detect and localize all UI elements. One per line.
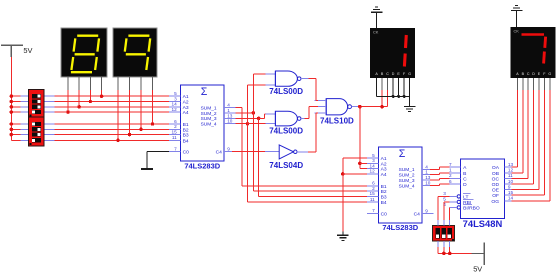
svg-text:11: 11 bbox=[370, 197, 375, 202]
inverter U3 74LS04D bbox=[269, 145, 308, 170]
power 5V V1 symbol top-left bbox=[1, 45, 33, 57]
svg-text:7: 7 bbox=[449, 162, 452, 167]
seven-segment display U7 (hex, shows 9) bbox=[113, 28, 157, 77]
svg-text:13: 13 bbox=[508, 162, 514, 167]
svg-text:A2: A2 bbox=[183, 100, 189, 106]
svg-text:5V: 5V bbox=[473, 264, 482, 273]
svg-text:74LS283D: 74LS283D bbox=[382, 223, 418, 232]
wire U4 SUM_3 to U5 C bbox=[430, 178, 450, 180]
svg-text:14: 14 bbox=[508, 196, 514, 201]
adder U1 74LS283D (4-bit full adder) bbox=[169, 85, 235, 170]
svg-text:A3: A3 bbox=[381, 167, 387, 173]
svg-text:SUM_4: SUM_4 bbox=[399, 183, 415, 189]
ground at U1 C0 bbox=[141, 152, 169, 169]
svg-text:SUM_2: SUM_2 bbox=[201, 111, 217, 117]
svg-text:Σ: Σ bbox=[399, 148, 406, 160]
svg-text:2: 2 bbox=[174, 124, 177, 129]
svg-text:9: 9 bbox=[508, 184, 511, 189]
svg-text:B4: B4 bbox=[381, 200, 387, 206]
svg-text:LT: LT bbox=[463, 194, 468, 200]
wire display U7 pin 3 to row bbox=[139, 77, 143, 131]
svg-text:A1: A1 bbox=[381, 156, 387, 162]
svg-text:SUM_2: SUM_2 bbox=[399, 173, 415, 179]
NAND gate U8 74LS10D (3-input) bbox=[315, 99, 359, 126]
wire U1 SUM_1 to U4 B1 (via vertical) bbox=[235, 108, 378, 186]
svg-text:A2: A2 bbox=[381, 161, 387, 167]
svg-text:11: 11 bbox=[172, 135, 177, 140]
decoder U5 74LS48N (BCD to 7-segment) bbox=[443, 159, 513, 229]
wire display U6 pin 1 to row bbox=[66, 77, 70, 114]
svg-text:B: B bbox=[463, 171, 466, 177]
wire S3 pin 2 to U5 ~RBI bbox=[444, 202, 450, 225]
wire U2B output to U8 input 2 bbox=[305, 107, 319, 119]
svg-text:4: 4 bbox=[227, 103, 230, 108]
svg-text:14: 14 bbox=[171, 102, 177, 107]
svg-text:74LS48N: 74LS48N bbox=[463, 218, 503, 229]
wire 5V rail to switch S2 pin 2 bbox=[10, 128, 29, 132]
power 5V V2 symbol bottom-right bbox=[473, 242, 484, 273]
svg-text:OC: OC bbox=[492, 176, 500, 182]
wire S3 pin 3 to U5 ~BI/RBO bbox=[449, 207, 451, 225]
svg-text:9: 9 bbox=[425, 208, 428, 213]
wire U4 SUM_2 to U5 B bbox=[430, 173, 450, 175]
seven-segment display U6 (hex, shows 8) bbox=[61, 28, 107, 77]
svg-text:A3: A3 bbox=[183, 105, 189, 111]
svg-text:SUM_1: SUM_1 bbox=[201, 105, 217, 111]
wire switch row 2 to U1 A2 bbox=[44, 101, 180, 103]
wire 5V rail to switch S1 pin 4 bbox=[10, 110, 29, 114]
svg-text:Σ: Σ bbox=[201, 86, 208, 98]
svg-text:D: D bbox=[392, 72, 395, 76]
wire display U7 pin 1 to row bbox=[116, 77, 120, 142]
wire U5 OF to display U10 pin F bbox=[511, 78, 544, 195]
svg-text:15: 15 bbox=[508, 190, 514, 195]
svg-text:1: 1 bbox=[425, 170, 428, 175]
NAND gate U2A 74LS00D bbox=[269, 71, 308, 96]
svg-text:5: 5 bbox=[372, 153, 375, 158]
wire U8 output to display U9 segments B,C and U4 A2,A3 (carry net) bbox=[358, 90, 388, 168]
wire display U6 pin 4 to row bbox=[100, 77, 104, 98]
wire switch row 8 to U1 B4 bbox=[44, 139, 180, 141]
svg-text:3: 3 bbox=[372, 158, 375, 163]
svg-text:OA: OA bbox=[492, 165, 500, 171]
svg-text:1: 1 bbox=[449, 168, 452, 173]
svg-text:5V: 5V bbox=[23, 46, 32, 55]
ground below display U9 bbox=[404, 96, 416, 111]
svg-text:74LS283D: 74LS283D bbox=[184, 161, 220, 170]
svg-text:C: C bbox=[463, 176, 467, 182]
svg-text:OD: OD bbox=[492, 182, 500, 188]
svg-text:SUM_3: SUM_3 bbox=[399, 178, 415, 184]
svg-text:B3: B3 bbox=[381, 194, 387, 200]
svg-text:6: 6 bbox=[372, 181, 375, 186]
svg-text:B4: B4 bbox=[183, 138, 189, 144]
svg-text:3: 3 bbox=[174, 96, 177, 101]
svg-text:1: 1 bbox=[227, 108, 230, 113]
seven-segment display U9 (common, shows 1) bbox=[370, 28, 415, 78]
wire switch row 5 to U1 B1 bbox=[44, 123, 180, 125]
wire U2A output to U8 input 1 bbox=[308, 79, 318, 101]
wire 5V rail to switch S1 pin 3 bbox=[10, 105, 29, 109]
wire 5V rail to switch bank inputs (vertical) bbox=[10, 57, 12, 141]
svg-text:10: 10 bbox=[508, 179, 514, 184]
svg-text:5: 5 bbox=[443, 197, 446, 202]
svg-text:9: 9 bbox=[227, 147, 230, 152]
svg-text:SUM_1: SUM_1 bbox=[399, 167, 415, 173]
svg-text:B2: B2 bbox=[381, 189, 387, 195]
svg-text:C4: C4 bbox=[216, 150, 223, 156]
wire U4 SUM_4 to U5 D bbox=[430, 184, 450, 186]
svg-text:2: 2 bbox=[372, 186, 375, 191]
svg-text:3: 3 bbox=[443, 191, 446, 196]
svg-text:6: 6 bbox=[449, 179, 452, 184]
svg-text:74LS10D: 74LS10D bbox=[320, 116, 354, 125]
wire display U7 pin 2 to row bbox=[128, 77, 132, 136]
wire U3 output to U8 input 3 bbox=[308, 113, 318, 152]
svg-text:6: 6 bbox=[174, 119, 177, 124]
svg-text:OG: OG bbox=[491, 199, 499, 205]
wire display U9 unused pins to ground bus bbox=[377, 78, 410, 98]
svg-text:5: 5 bbox=[174, 91, 177, 96]
wire S3 pin 1 to U5 ~LT bbox=[438, 196, 450, 225]
svg-text:14: 14 bbox=[369, 163, 375, 168]
svg-text:SUM_4: SUM_4 bbox=[201, 122, 217, 128]
adder U4 74LS283D (4-bit full adder) bbox=[367, 147, 433, 232]
wire U1 SUM_4 to NAND U2A input B and U4 B4 bbox=[235, 85, 378, 202]
wire switch row 3 to U1 A3 bbox=[44, 106, 180, 108]
svg-text:A1: A1 bbox=[183, 94, 189, 100]
svg-text:C0: C0 bbox=[381, 211, 388, 217]
wire U5 OG to display U10 pin G bbox=[511, 78, 550, 201]
DIP switch S3 (3-position) at U5 control pins bbox=[432, 225, 454, 241]
svg-text:D: D bbox=[463, 182, 467, 188]
svg-text:74LS04D: 74LS04D bbox=[269, 161, 303, 170]
svg-text:OB: OB bbox=[492, 171, 499, 177]
seven-segment display U10 (common, shows 7) bbox=[510, 27, 555, 78]
svg-text:7: 7 bbox=[174, 146, 177, 151]
wire switch row 4 to U1 A4 bbox=[44, 111, 180, 113]
svg-text:10: 10 bbox=[227, 119, 233, 124]
svg-text:15: 15 bbox=[171, 129, 177, 134]
svg-text:74LS00D: 74LS00D bbox=[269, 127, 303, 136]
svg-text:B3: B3 bbox=[183, 133, 189, 139]
wire 5V rail to switch S2 pin 4 bbox=[11, 139, 28, 141]
svg-text:A4: A4 bbox=[381, 172, 387, 178]
svg-text:12: 12 bbox=[369, 169, 375, 174]
svg-text:BI/RBO: BI/RBO bbox=[463, 205, 480, 211]
wire U5 OE to display U10 pin E bbox=[511, 78, 539, 190]
svg-text:RBI: RBI bbox=[463, 200, 471, 206]
wire U4 SUM_1 to U5 A bbox=[430, 167, 450, 169]
wire display U6 pin 2 to row bbox=[77, 77, 81, 109]
wire 5V rail to switch S1 pin 2 bbox=[10, 100, 29, 104]
svg-text:12: 12 bbox=[171, 107, 177, 112]
svg-text:10: 10 bbox=[425, 181, 431, 186]
wire ground net to U4 A1 and A4 bbox=[341, 158, 378, 231]
svg-text:D: D bbox=[532, 72, 535, 76]
DIP switch S1 (4-position, set 0-0-0-1) bbox=[29, 90, 44, 118]
svg-text:15: 15 bbox=[369, 191, 375, 196]
wire U5 OB to display U10 pin B bbox=[511, 78, 523, 173]
svg-text:13: 13 bbox=[227, 113, 233, 118]
ground below U4 A-input net bbox=[337, 231, 349, 240]
svg-text:13: 13 bbox=[425, 175, 431, 180]
wire U1 C4 to inverter U3 input bbox=[224, 151, 279, 153]
svg-text:B2: B2 bbox=[183, 127, 189, 133]
svg-text:74LS00D: 74LS00D bbox=[269, 87, 303, 96]
ground above display U9 bbox=[371, 7, 383, 28]
svg-text:B1: B1 bbox=[381, 184, 387, 190]
svg-text:OF: OF bbox=[492, 193, 499, 199]
svg-text:CK: CK bbox=[373, 29, 379, 34]
wire U5 OA to display U10 pin A bbox=[511, 78, 517, 167]
svg-text:11: 11 bbox=[508, 173, 513, 178]
wire U1 SUM_2 to NAND U2A input and U4 B2 bbox=[235, 74, 378, 191]
ground above display U10 bbox=[511, 5, 523, 27]
wire 5V rail to switch S1 pin 1 bbox=[10, 94, 29, 98]
svg-text:C0: C0 bbox=[183, 150, 190, 156]
wire switch row 6 to U1 B2 bbox=[44, 128, 180, 130]
svg-text:12: 12 bbox=[508, 168, 514, 173]
svg-text:C: C bbox=[386, 72, 389, 76]
NAND gate U2B 74LS00D bbox=[269, 111, 308, 135]
svg-text:C: C bbox=[527, 72, 530, 76]
svg-text:A4: A4 bbox=[183, 110, 189, 116]
wire U1 SUM_3 to NAND U2B input and U4 B3 bbox=[235, 114, 378, 196]
svg-text:4: 4 bbox=[425, 164, 428, 169]
svg-text:G: G bbox=[548, 72, 551, 76]
svg-text:C4: C4 bbox=[414, 211, 421, 217]
wire display U6 pin 3 to row bbox=[89, 77, 93, 103]
svg-text:G: G bbox=[408, 72, 411, 76]
wire S3 common pins to 5V rail bbox=[438, 241, 484, 255]
svg-text:SUM_3: SUM_3 bbox=[201, 116, 217, 122]
wire 5V rail to switch S2 pin 1 bbox=[10, 122, 29, 126]
wire display U7 pin 4 to row bbox=[151, 77, 155, 126]
svg-text:B1: B1 bbox=[183, 122, 189, 128]
svg-text:2: 2 bbox=[449, 173, 452, 178]
wire U5 OD to display U10 pin D bbox=[511, 78, 533, 184]
svg-text:CK: CK bbox=[514, 28, 520, 33]
svg-text:OE: OE bbox=[492, 188, 500, 194]
wire 5V rail to switch S2 pin 3 bbox=[10, 133, 29, 137]
wire U5 OC to display U10 pin C bbox=[511, 78, 528, 178]
wire switch row 7 to U1 B3 bbox=[44, 134, 180, 136]
svg-text:7: 7 bbox=[372, 208, 375, 213]
DIP switch S2 (4-position, set 1-0-0-1) bbox=[29, 117, 44, 146]
wire switch row 1 to U1 A1 bbox=[44, 95, 180, 97]
